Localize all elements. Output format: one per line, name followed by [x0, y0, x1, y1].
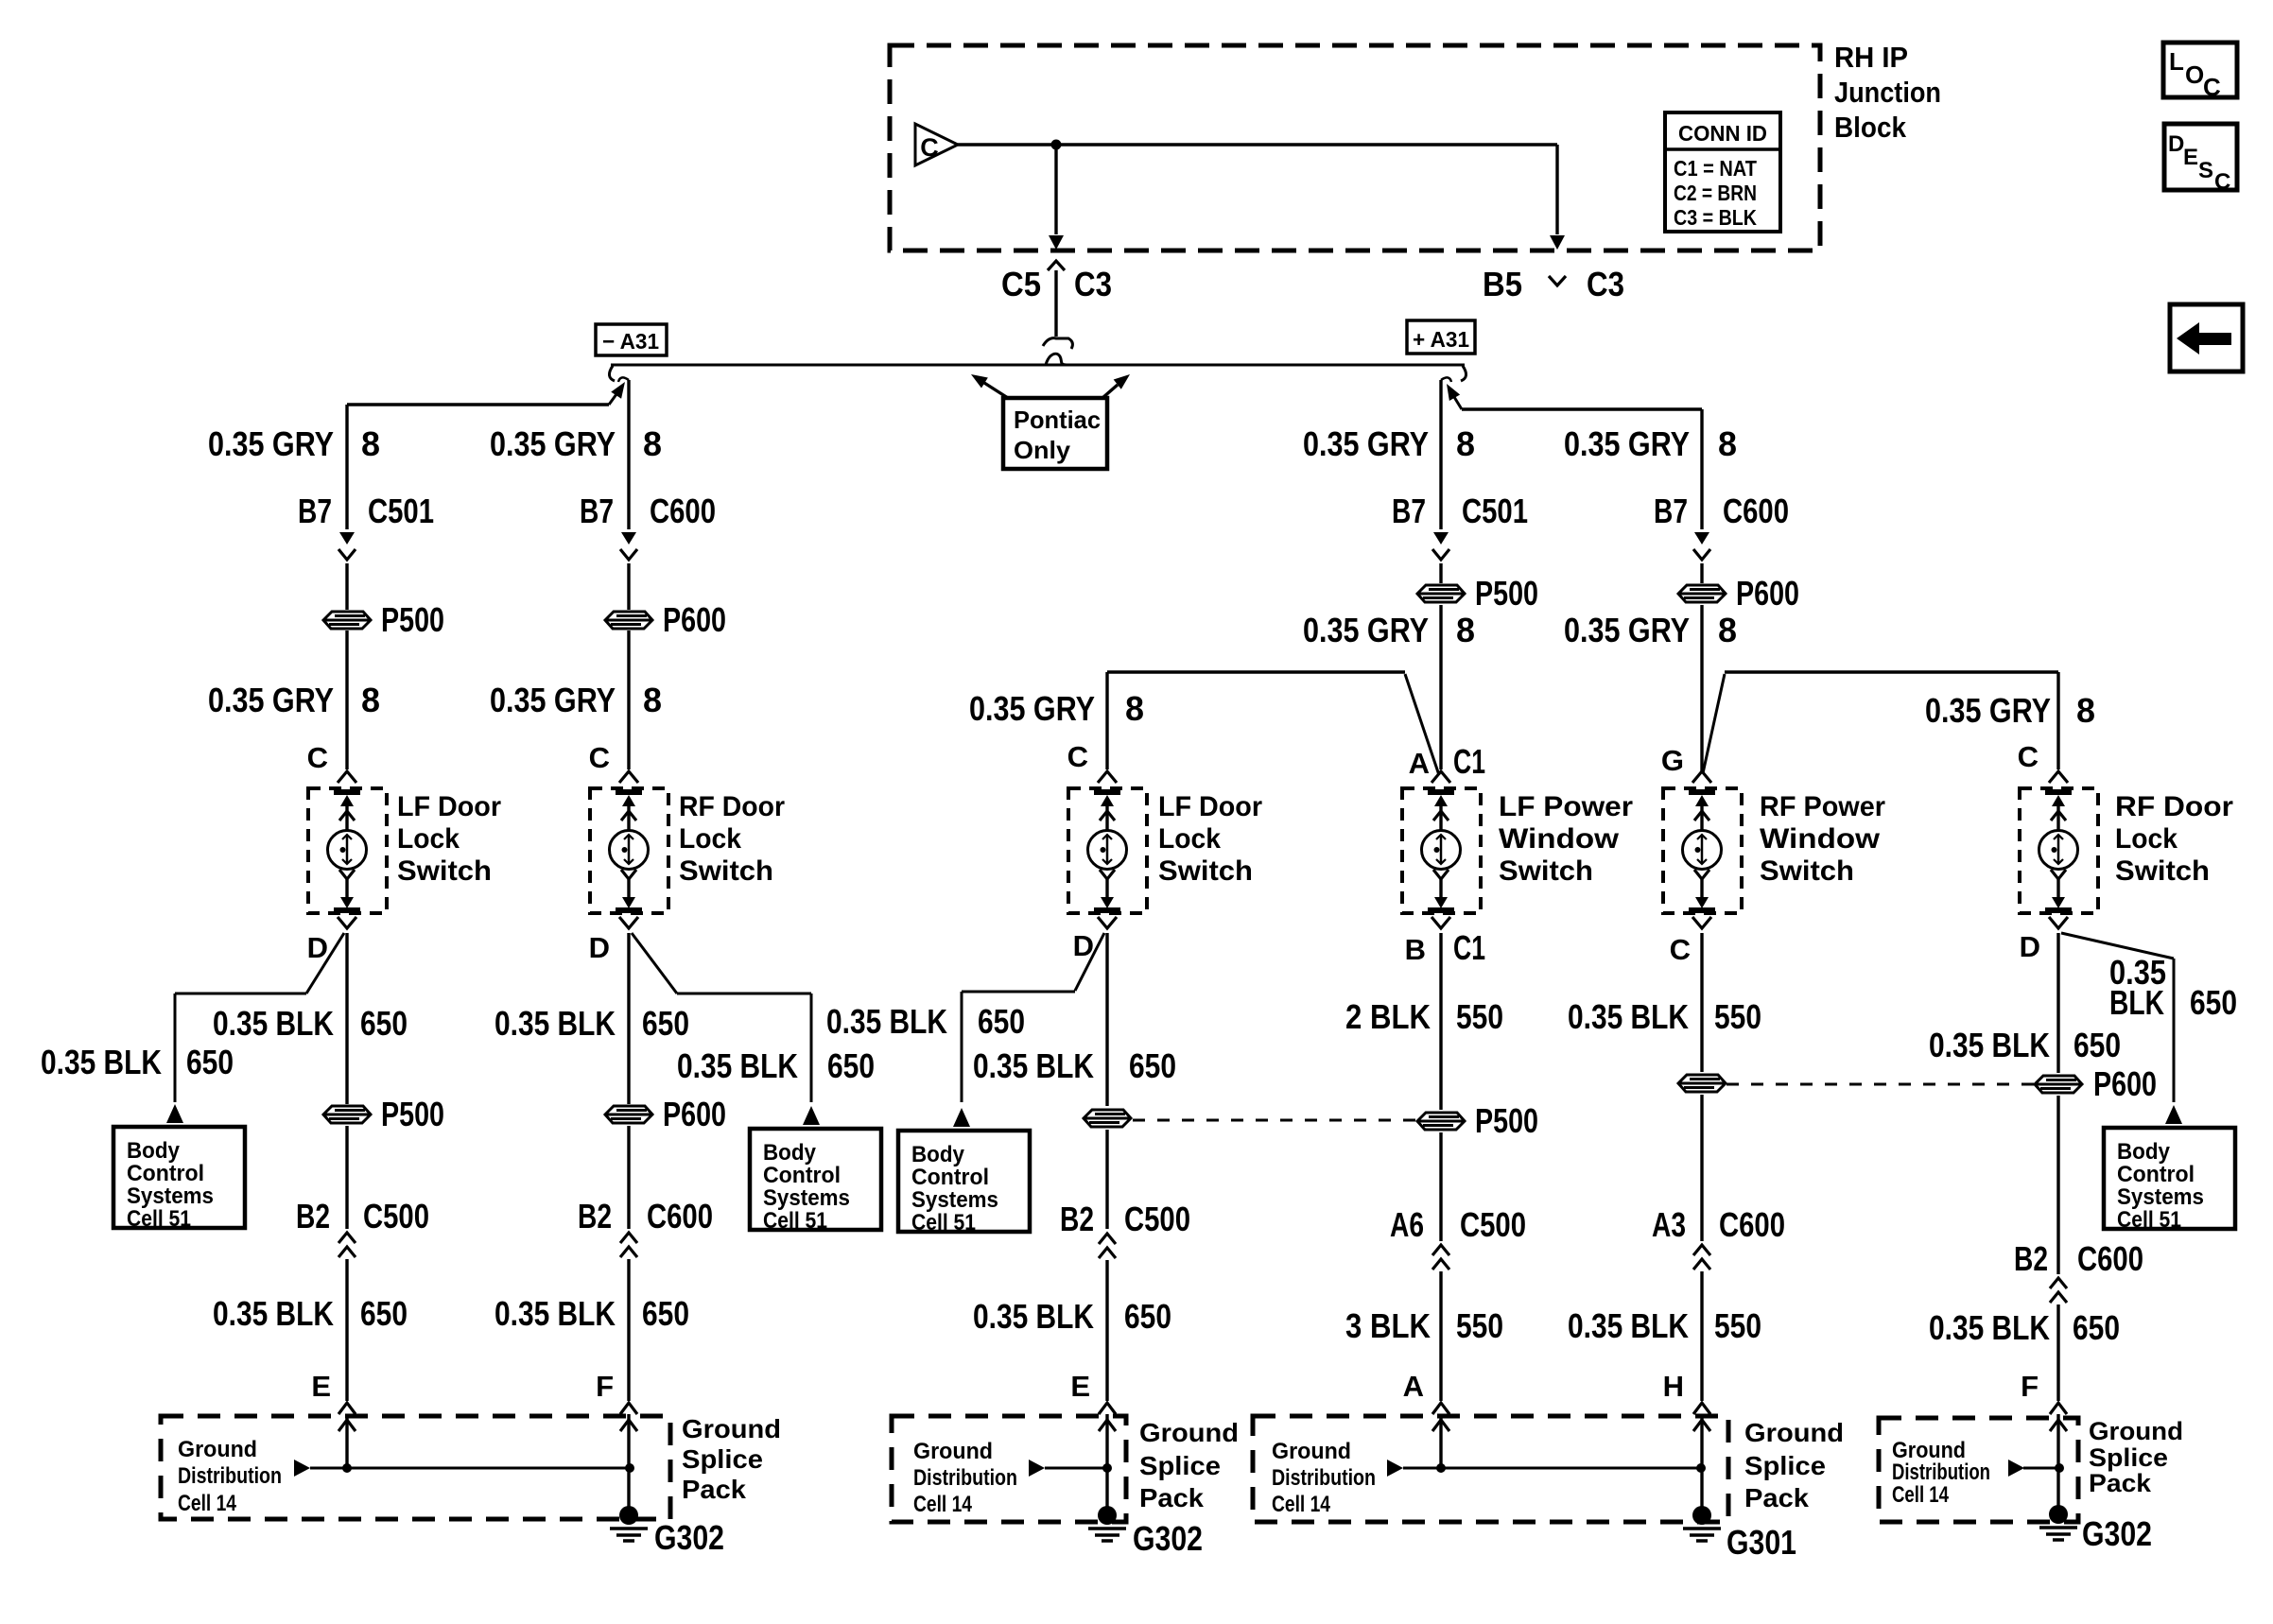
- svg-text:C: C: [307, 741, 328, 774]
- svg-text:C500: C500: [1460, 1205, 1526, 1244]
- svg-text:A6: A6: [1390, 1205, 1424, 1244]
- svg-text:650: 650: [2190, 983, 2237, 1022]
- svg-text:P600: P600: [1736, 574, 1799, 613]
- svg-text:RF Power: RF Power: [1760, 791, 1885, 822]
- svg-text:Ground: Ground: [913, 1439, 993, 1464]
- svg-text:P500: P500: [381, 600, 444, 639]
- svg-text:C600: C600: [647, 1197, 713, 1235]
- svg-text:650: 650: [2073, 1308, 2120, 1347]
- svg-text:650: 650: [360, 1004, 408, 1043]
- svg-text:C2 = BRN: C2 = BRN: [1674, 181, 1757, 205]
- svg-text:G302: G302: [2082, 1514, 2152, 1553]
- svg-text:B: B: [1405, 933, 1426, 966]
- svg-text:Cell 14: Cell 14: [178, 1491, 237, 1516]
- svg-text:C: C: [589, 741, 610, 774]
- svg-text:Control: Control: [2117, 1162, 2195, 1187]
- svg-text:C: C: [920, 133, 939, 162]
- svg-text:C500: C500: [1124, 1200, 1190, 1238]
- svg-text:Control: Control: [911, 1165, 989, 1190]
- svg-text:RF Door: RF Door: [2115, 791, 2233, 822]
- svg-text:Body: Body: [911, 1142, 965, 1167]
- svg-text:Pack: Pack: [1744, 1483, 1809, 1512]
- svg-text:C501: C501: [1462, 492, 1528, 530]
- svg-text:Ground: Ground: [1139, 1418, 1239, 1447]
- svg-text:C5: C5: [1001, 265, 1041, 303]
- svg-text:0.35 BLK: 0.35 BLK: [41, 1043, 162, 1081]
- svg-text:650: 650: [642, 1004, 689, 1043]
- svg-text:− A31: − A31: [602, 329, 659, 354]
- svg-text:Ground: Ground: [2089, 1417, 2183, 1445]
- svg-text:B7: B7: [298, 492, 332, 530]
- svg-text:Splice: Splice: [1744, 1451, 1826, 1480]
- svg-text:G301: G301: [1726, 1523, 1796, 1562]
- svg-text:C500: C500: [363, 1197, 429, 1235]
- svg-text:0.35 BLK: 0.35 BLK: [973, 1297, 1094, 1336]
- svg-text:Cell 51: Cell 51: [763, 1208, 827, 1234]
- svg-text:C3: C3: [1074, 265, 1112, 303]
- svg-text:Ground: Ground: [178, 1437, 257, 1462]
- svg-text:Block: Block: [1834, 111, 1907, 144]
- svg-text:Junction: Junction: [1834, 76, 1941, 109]
- svg-text:8: 8: [1456, 424, 1475, 463]
- svg-text:Ground: Ground: [1272, 1439, 1351, 1464]
- svg-text:G: G: [1661, 744, 1684, 777]
- svg-text:0.35 BLK: 0.35 BLK: [213, 1294, 334, 1333]
- svg-text:Window: Window: [1760, 823, 1881, 855]
- svg-text:B2: B2: [578, 1197, 612, 1235]
- svg-text:Control: Control: [763, 1163, 841, 1188]
- svg-text:H: H: [1663, 1370, 1684, 1403]
- svg-text:D: D: [307, 931, 328, 964]
- svg-text:P500: P500: [1475, 574, 1538, 613]
- svg-text:O: O: [2185, 60, 2204, 89]
- svg-text:C600: C600: [1719, 1205, 1785, 1244]
- svg-text:650: 650: [186, 1043, 234, 1081]
- svg-text:P500: P500: [381, 1095, 444, 1133]
- svg-text:B2: B2: [2014, 1239, 2048, 1278]
- svg-text:2 BLK: 2 BLK: [1345, 997, 1431, 1036]
- svg-text:C1: C1: [1453, 928, 1485, 967]
- svg-text:C: C: [2018, 740, 2039, 773]
- svg-text:Distribution: Distribution: [1272, 1465, 1376, 1491]
- svg-text:RH IP: RH IP: [1834, 41, 1908, 74]
- svg-text:C: C: [2203, 73, 2221, 101]
- svg-text:8: 8: [361, 424, 380, 463]
- svg-text:Switch: Switch: [397, 855, 492, 887]
- svg-text:LF Power: LF Power: [1499, 791, 1633, 822]
- svg-text:P500: P500: [1475, 1101, 1538, 1140]
- svg-text:0.35 GRY: 0.35 GRY: [969, 689, 1095, 728]
- svg-text:0.35 BLK: 0.35 BLK: [677, 1046, 798, 1085]
- svg-text:Lock: Lock: [2115, 823, 2178, 855]
- svg-text:Switch: Switch: [1760, 855, 1854, 887]
- svg-text:B7: B7: [1392, 492, 1426, 530]
- svg-text:CONN ID: CONN ID: [1678, 121, 1767, 146]
- svg-text:Cell 14: Cell 14: [1892, 1482, 1949, 1508]
- svg-text:B2: B2: [296, 1197, 330, 1235]
- svg-text:Cell 14: Cell 14: [1272, 1492, 1331, 1517]
- svg-text:Pack: Pack: [1139, 1483, 1204, 1512]
- svg-text:Systems: Systems: [911, 1187, 998, 1213]
- svg-text:Lock: Lock: [1158, 823, 1221, 855]
- svg-text:P600: P600: [2093, 1064, 2157, 1103]
- svg-text:8: 8: [1718, 611, 1737, 649]
- svg-text:Ground: Ground: [682, 1414, 781, 1443]
- svg-text:550: 550: [1456, 997, 1503, 1036]
- svg-text:A: A: [1409, 747, 1430, 780]
- svg-text:S: S: [2198, 158, 2213, 183]
- svg-text:A3: A3: [1652, 1205, 1686, 1244]
- svg-text:C3: C3: [1587, 265, 1624, 303]
- svg-text:0.35 GRY: 0.35 GRY: [1925, 691, 2051, 730]
- svg-text:RF Door: RF Door: [679, 791, 785, 822]
- svg-text:8: 8: [1718, 424, 1737, 463]
- svg-text:Systems: Systems: [127, 1183, 214, 1209]
- svg-text:8: 8: [2076, 691, 2095, 730]
- svg-text:0.35 GRY: 0.35 GRY: [490, 681, 616, 719]
- svg-text:Body: Body: [2117, 1139, 2171, 1165]
- svg-text:3 BLK: 3 BLK: [1345, 1306, 1431, 1345]
- svg-text:Splice: Splice: [682, 1444, 763, 1474]
- svg-text:0.35 GRY: 0.35 GRY: [1303, 611, 1429, 649]
- svg-text:Switch: Switch: [2115, 855, 2210, 887]
- svg-text:G302: G302: [1133, 1519, 1203, 1558]
- svg-text:Lock: Lock: [679, 823, 741, 855]
- svg-text:D: D: [2168, 131, 2184, 157]
- svg-text:650: 650: [2073, 1026, 2121, 1064]
- svg-text:C: C: [2214, 169, 2230, 195]
- svg-text:C: C: [1670, 933, 1691, 966]
- svg-text:LF Door: LF Door: [1158, 791, 1262, 822]
- svg-text:650: 650: [642, 1294, 689, 1333]
- svg-text:Switch: Switch: [679, 855, 773, 887]
- svg-text:P600: P600: [663, 1095, 726, 1133]
- svg-text:C600: C600: [1723, 492, 1789, 530]
- svg-text:Splice: Splice: [1139, 1451, 1221, 1480]
- svg-text:B7: B7: [1654, 492, 1688, 530]
- svg-text:650: 650: [827, 1046, 875, 1085]
- svg-text:B5: B5: [1483, 265, 1522, 303]
- svg-text:Pack: Pack: [2089, 1469, 2152, 1497]
- svg-text:Switch: Switch: [1499, 855, 1593, 887]
- svg-text:8: 8: [1456, 611, 1475, 649]
- svg-text:C600: C600: [2077, 1239, 2143, 1278]
- svg-text:Pack: Pack: [682, 1475, 746, 1504]
- svg-text:Splice: Splice: [2089, 1443, 2168, 1472]
- svg-text:Switch: Switch: [1158, 855, 1253, 887]
- svg-text:Systems: Systems: [763, 1185, 850, 1211]
- svg-text:650: 650: [1129, 1046, 1176, 1085]
- svg-text:8: 8: [643, 681, 662, 719]
- svg-text:G302: G302: [654, 1518, 724, 1557]
- svg-text:8: 8: [1125, 689, 1144, 728]
- svg-text:C1: C1: [1453, 742, 1485, 781]
- svg-text:Systems: Systems: [2117, 1184, 2204, 1210]
- svg-text:Cell 51: Cell 51: [127, 1206, 191, 1232]
- svg-text:E: E: [2183, 145, 2198, 170]
- svg-text:0.35 GRY: 0.35 GRY: [208, 424, 334, 463]
- svg-text:C3 = BLK: C3 = BLK: [1674, 205, 1757, 230]
- svg-text:B2: B2: [1060, 1200, 1094, 1238]
- svg-text:C600: C600: [650, 492, 716, 530]
- svg-text:650: 650: [978, 1002, 1025, 1041]
- svg-text:C: C: [1067, 740, 1088, 773]
- svg-text:C501: C501: [368, 492, 434, 530]
- svg-text:Ground: Ground: [1744, 1418, 1844, 1447]
- svg-text:P600: P600: [663, 600, 726, 639]
- svg-text:0.35 BLK: 0.35 BLK: [213, 1004, 334, 1043]
- svg-text:0.35 BLK: 0.35 BLK: [495, 1294, 616, 1333]
- svg-text:0.35 BLK: 0.35 BLK: [495, 1004, 616, 1043]
- svg-text:Distribution: Distribution: [178, 1463, 282, 1489]
- svg-text:0.35 BLK: 0.35 BLK: [826, 1002, 947, 1041]
- svg-text:650: 650: [360, 1294, 408, 1333]
- svg-text:650: 650: [1124, 1297, 1171, 1336]
- svg-text:B7: B7: [580, 492, 614, 530]
- svg-text:Cell 51: Cell 51: [911, 1210, 976, 1235]
- svg-text:A: A: [1403, 1370, 1424, 1403]
- svg-text:0.35 GRY: 0.35 GRY: [208, 681, 334, 719]
- svg-text:550: 550: [1456, 1306, 1503, 1345]
- svg-text:Cell 14: Cell 14: [913, 1492, 973, 1517]
- svg-text:Cell 51: Cell 51: [2117, 1207, 2181, 1233]
- svg-text:0.35 BLK: 0.35 BLK: [1929, 1026, 2050, 1064]
- svg-text:550: 550: [1714, 997, 1761, 1036]
- svg-text:Control: Control: [127, 1161, 204, 1186]
- svg-text:Distribution: Distribution: [1892, 1460, 1990, 1485]
- svg-text:0.35 GRY: 0.35 GRY: [1564, 611, 1690, 649]
- svg-text:C1 = NAT: C1 = NAT: [1674, 156, 1757, 181]
- svg-text:E: E: [311, 1370, 331, 1403]
- svg-text:F: F: [596, 1370, 614, 1403]
- svg-text:Window: Window: [1499, 823, 1620, 855]
- svg-text:8: 8: [361, 681, 380, 719]
- svg-text:D: D: [589, 931, 610, 964]
- svg-text:F: F: [2021, 1370, 2039, 1403]
- svg-text:E: E: [1070, 1370, 1090, 1403]
- svg-text:D: D: [2020, 930, 2040, 963]
- svg-text:0.35 BLK: 0.35 BLK: [1929, 1308, 2050, 1347]
- svg-text:0.35 BLK: 0.35 BLK: [1568, 997, 1689, 1036]
- svg-text:0.35 BLK: 0.35 BLK: [973, 1046, 1094, 1085]
- svg-text:550: 550: [1714, 1306, 1761, 1345]
- svg-text:Body: Body: [763, 1140, 817, 1166]
- svg-text:LF Door: LF Door: [397, 791, 501, 822]
- svg-text:Pontiac: Pontiac: [1014, 406, 1101, 434]
- svg-text:0.35 BLK: 0.35 BLK: [1568, 1306, 1689, 1345]
- svg-text:0.35 GRY: 0.35 GRY: [1303, 424, 1429, 463]
- svg-text:Only: Only: [1014, 436, 1071, 464]
- svg-text:Distribution: Distribution: [913, 1465, 1017, 1491]
- svg-text:Lock: Lock: [397, 823, 460, 855]
- svg-text:Body: Body: [127, 1138, 181, 1164]
- svg-text:8: 8: [643, 424, 662, 463]
- svg-text:0.35 GRY: 0.35 GRY: [1564, 424, 1690, 463]
- svg-text:+ A31: + A31: [1413, 327, 1469, 352]
- svg-text:BLK: BLK: [2109, 983, 2164, 1022]
- svg-text:0.35 GRY: 0.35 GRY: [490, 424, 616, 463]
- svg-text:L: L: [2169, 47, 2184, 76]
